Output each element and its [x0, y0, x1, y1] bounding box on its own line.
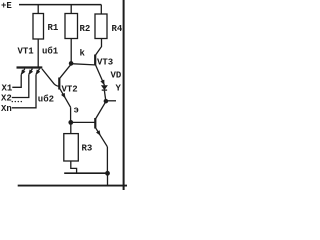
svg-text:R2: R2: [80, 24, 91, 34]
label X1: [2, 84, 13, 94]
label e (emitter node): [74, 106, 79, 116]
svg-text:uб2: uб2: [38, 94, 54, 105]
resistor R4: [95, 5, 123, 39]
wire VT2 emitter to node e: [70, 107, 72, 121]
svg-text:Y: Y: [116, 84, 122, 94]
transistor VT2: [59, 65, 77, 108]
svg-text:X2: X2: [1, 94, 12, 104]
transistor VT3: [95, 39, 113, 86]
diode VD: [102, 71, 122, 100]
svg-text:VT2: VT2: [62, 85, 78, 95]
svg-text:VT1: VT1: [18, 47, 35, 57]
wire input X1: [12, 75, 21, 88]
svg-text:uб1: uб1: [42, 46, 59, 57]
wire ground to frame: [107, 173, 109, 185]
transistor VT4: [95, 102, 107, 172]
label X2: [1, 94, 12, 104]
node e junction dot: [68, 120, 73, 125]
svg-text:э: э: [74, 106, 79, 116]
label Y: [116, 84, 122, 94]
svg-text:Xn: Xn: [1, 104, 12, 114]
node k junction dot: [69, 61, 74, 66]
label ub2: [38, 94, 54, 105]
resistor R2: [65, 5, 90, 39]
ellipsis more inputs: [12, 101, 22, 102]
resistor R3: [64, 124, 93, 173]
svg-text:R4: R4: [112, 24, 123, 34]
wire node k to VT3 base: [71, 64, 94, 65]
wire +E power rail: [19, 4, 101, 6]
svg-text:VT3: VT3: [97, 58, 113, 68]
wire R2 to node k: [70, 39, 72, 63]
svg-text:R1: R1: [48, 23, 59, 33]
label k: [80, 49, 86, 59]
label ub1 (base current node): [42, 46, 59, 57]
power label +E: [1, 1, 12, 11]
resistor R1: [33, 5, 59, 39]
wire VT1 collector to VT2 base: [42, 69, 59, 86]
wire R1 to VT1 base: [37, 39, 39, 67]
ground junction dot: [105, 171, 110, 176]
svg-text:X1: X1: [2, 84, 13, 94]
wire node e to VT4 base: [73, 121, 95, 123]
frame bottom border: [18, 185, 127, 187]
wire output Y stub: [106, 100, 116, 102]
frame right border: [123, 0, 125, 190]
svg-text:VD: VD: [111, 71, 122, 81]
label Xn: [1, 104, 12, 114]
svg-text:+E: +E: [1, 1, 12, 11]
wire input Xn: [12, 75, 36, 108]
wire input X2: [12, 75, 29, 98]
transistor VT1 (multi-emitter): [17, 47, 43, 75]
svg-text:R3: R3: [82, 144, 93, 154]
svg-text:k: k: [80, 49, 86, 59]
node Y junction dot: [104, 99, 109, 104]
ground rail: [64, 172, 107, 174]
